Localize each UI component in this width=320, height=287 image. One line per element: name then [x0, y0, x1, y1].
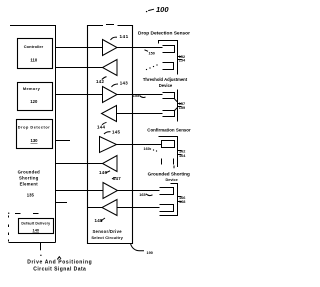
grounded shorting device outer electrode: [160, 184, 178, 216]
drop detection sensor electrode plate 154: [163, 63, 174, 70]
amp A5 (145): [100, 129, 121, 152]
svg-text:168: 168: [179, 200, 185, 204]
label 165 leader: [139, 193, 152, 197]
svg-text:100: 100: [156, 5, 169, 14]
drop detector box 130: [17, 120, 53, 149]
svg-text:Confirmation Sensor: Confirmation Sensor: [147, 127, 191, 132]
amp A2 (142): [96, 60, 117, 85]
dashed enclosure box: [8, 213, 56, 243]
wire bus to amp A1: [56, 47, 103, 49]
svg-text:141: 141: [120, 34, 129, 39]
amp A6 (146): [99, 156, 117, 176]
svg-text:150: 150: [149, 51, 155, 55]
svg-text:135: 135: [27, 193, 35, 198]
svg-text:Drop Detection Sensor: Drop Detection Sensor: [138, 30, 190, 36]
wire A8 input wire from grounded shorting device: [117, 207, 160, 209]
svg-text:Threshold Adjustment: Threshold Adjustment: [143, 77, 188, 82]
svg-text:Grounded Shorting: Grounded Shorting: [148, 171, 190, 176]
svg-text:146: 146: [99, 170, 107, 175]
grounded shorting device electrode plate 166: [160, 188, 174, 195]
amp A7 (147): [103, 176, 121, 199]
svg-text:159: 159: [179, 106, 185, 110]
bottom caption arrowhead: [57, 257, 61, 260]
threshold adjustment device bus: [177, 90, 179, 122]
wire tick above grounded shorting title: [173, 166, 175, 169]
drop detection sensor pin ticks and labels 152 154: [178, 55, 187, 63]
wire A4 input from threshold adjustment device: [117, 113, 163, 115]
drop detection sensor electrode plate 152: [163, 46, 175, 53]
svg-text:110: 110: [30, 58, 37, 63]
svg-text:Memory: Memory: [23, 86, 41, 91]
wire stub from bus lower: [56, 202, 68, 204]
threshold adjustment electrode plate 156: [163, 93, 175, 99]
threshold adjustment electrode plate 158: [163, 111, 175, 117]
svg-text:142: 142: [96, 79, 104, 84]
svg-text:Grounded: Grounded: [18, 169, 41, 174]
memory box 120: [18, 83, 53, 111]
confirmation sensor outer electrode: [159, 137, 178, 168]
svg-text:Select Circuitry: Select Circuitry: [91, 235, 123, 240]
threshold adjustment pin ticks and labels 157 159: [178, 102, 186, 110]
svg-text:Device: Device: [159, 83, 173, 88]
svg-text:144: 144: [97, 124, 105, 129]
wire A3 output to threshold adjustment device: [117, 94, 163, 96]
bottom caption text: [27, 260, 92, 273]
svg-text:Device: Device: [165, 178, 177, 182]
controller box 110: [18, 39, 53, 69]
svg-text:148: 148: [95, 218, 103, 223]
wire bus to amp A7: [56, 190, 104, 192]
label 155 leader: [133, 94, 146, 98]
sensor/drive select circuitry box (main): [88, 25, 133, 244]
svg-text:Drop Detector: Drop Detector: [18, 126, 50, 130]
svg-text:147: 147: [113, 176, 121, 181]
svg-text:Controller: Controller: [24, 44, 44, 49]
svg-text:165: 165: [139, 193, 145, 197]
wire A5 output to confirmation sensor: [117, 144, 162, 146]
svg-text:Sensor/Drive: Sensor/Drive: [92, 229, 122, 234]
confirmation sensor gap plates: [162, 159, 174, 165]
dotted leader to confirmation sensor: [150, 148, 157, 151]
wire A1 output to drop detection sensor: [117, 47, 163, 49]
wire A7 output to grounded shorting device: [118, 190, 160, 192]
svg-text:130: 130: [31, 138, 39, 143]
drop detection sensor outer electrode: [159, 41, 178, 75]
wire A8 apex to box edge: [88, 207, 103, 209]
svg-text:145: 145: [112, 129, 120, 134]
hook from bus to plate 158: [175, 108, 178, 111]
grounded shorting device title: [148, 171, 190, 182]
figure reference label 100: [146, 5, 169, 14]
amp A8 (148): [95, 200, 118, 223]
amp A4 (144): [97, 106, 117, 130]
grounded shorting element text 135: [18, 169, 41, 197]
wire bus to amp A3: [56, 94, 103, 96]
wire top feed line into left bus: [10, 25, 56, 27]
svg-text:154: 154: [179, 59, 186, 63]
grounded shorting pin ticks and labels 166 168: [178, 196, 186, 204]
svg-text:143: 143: [120, 81, 128, 86]
leader to label 190: [131, 244, 153, 256]
svg-text:Circuit Signal Data: Circuit Signal Data: [33, 266, 86, 272]
amp A3 (143): [103, 81, 129, 103]
dotted leader to plate 154: [146, 64, 158, 70]
svg-text:155: 155: [133, 94, 139, 98]
svg-text:Shorting: Shorting: [19, 176, 39, 181]
default delivery box 140: [19, 219, 54, 234]
svg-text:120: 120: [30, 99, 38, 104]
amp A1 (141): [103, 34, 129, 55]
confirmation sensor pin ticks and labels 162 164: [178, 150, 187, 158]
threshold adjustment device title: [143, 77, 188, 88]
svg-text:190: 190: [147, 251, 153, 255]
leader from dashed box to bottom caption: [40, 243, 41, 257]
svg-text:160: 160: [144, 147, 150, 151]
svg-text:Default Delivery: Default Delivery: [21, 222, 50, 226]
wire stub from bus near drop detector level: [56, 140, 71, 142]
hook from plate 156 to bus: [175, 99, 178, 102]
wire left vertical bus: [55, 26, 57, 243]
wire bus to amp A6: [56, 163, 103, 165]
svg-text:166: 166: [179, 196, 185, 200]
grounded shorting device electrode plate 168: [160, 205, 174, 212]
svg-text:Element: Element: [20, 182, 39, 187]
svg-text:140: 140: [33, 227, 40, 232]
label 150 leader: [145, 50, 155, 56]
svg-text:164: 164: [179, 154, 186, 158]
svg-text:Drive And Positioning: Drive And Positioning: [27, 260, 92, 266]
confirmation sensor plate box 162: [162, 141, 175, 148]
wire bus to amp A2: [56, 67, 103, 69]
